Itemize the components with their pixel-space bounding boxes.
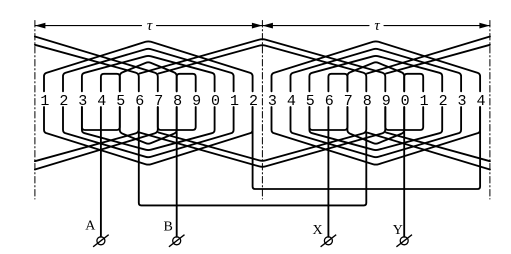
svg-text:4: 4 (476, 93, 485, 110)
coil wrap bottom end-connection outer-right (367, 133, 490, 170)
svg-text:8: 8 (363, 93, 372, 110)
svg-text:1: 1 (230, 93, 239, 110)
coil link slot8-slot9 top arch (177, 74, 196, 92)
svg-text:0: 0 (211, 93, 220, 110)
terminal X symbol (324, 237, 332, 245)
coil 3-10 bottom end-connection (82, 107, 215, 150)
arrowhead left (points left) (35, 23, 46, 29)
svg-text:3: 3 (78, 93, 87, 110)
coil 1-12 bottom end-connection (44, 107, 253, 165)
coil 3-10 top end-connection (82, 56, 215, 91)
wire terminal lead A (100, 107, 102, 237)
arrowhead mid-left (points right) (252, 23, 263, 29)
svg-text:8: 8 (173, 93, 182, 110)
svg-text:A: A (85, 219, 96, 234)
coil 1-12 top end-connection (44, 41, 253, 91)
wire tau dimension line left-b (157, 25, 263, 27)
coil 6-19 top end-connection (centre axis outer) (140, 39, 386, 91)
svg-text:1: 1 (40, 93, 49, 110)
coil 17-20 bottom end-connection (347, 107, 404, 144)
wire link slot3-slot5 (82, 107, 120, 130)
coil 15-22 top end-connection (309, 56, 442, 91)
wire link slot7-slot9 (158, 107, 196, 130)
coil 5-8 bottom end-connection (120, 107, 177, 144)
coil link slot4-slot5 top arch (101, 74, 120, 92)
terminal A symbol (97, 237, 105, 245)
svg-text:X: X (313, 223, 323, 238)
coil wrap top end-connection outer-right (367, 37, 490, 74)
coil wrap bottom end-connection inner-right (386, 133, 490, 162)
wire jumper slot12 to slot24 (253, 107, 481, 189)
wire tau dimension line right-b (384, 25, 490, 27)
coil 17-20 top end-connection (347, 62, 404, 91)
coil link slot20-slot21 top arch (404, 74, 423, 92)
svg-text:1: 1 (420, 93, 429, 110)
svg-text:5: 5 (306, 93, 315, 110)
svg-text:9: 9 (382, 93, 391, 110)
svg-text:2: 2 (439, 93, 448, 110)
wire jumper slot6 to slot18 (139, 107, 366, 205)
svg-text:6: 6 (325, 93, 334, 110)
terminal Y symbol (400, 237, 408, 245)
svg-text:0: 0 (401, 93, 410, 110)
svg-text:B: B (164, 219, 173, 234)
wire terminal lead B (176, 107, 178, 237)
svg-text:2: 2 (59, 93, 68, 110)
wire left pole axis (dash-dot) (34, 21, 36, 200)
wire tau dimension line right-a (262, 25, 369, 27)
wire terminal lead X (327, 107, 329, 237)
coil 13-24 bottom end-connection (272, 107, 481, 165)
svg-text:Y: Y (393, 223, 403, 238)
svg-text:6: 6 (135, 93, 144, 110)
coil 7-18 bottom end-connection (centre axis inner) (159, 107, 367, 161)
arrowhead mid-right (points left) (262, 23, 273, 29)
coil link slot16-slot17 top arch (328, 74, 347, 92)
coil 14-23 top end-connection (291, 49, 462, 92)
wire tau dimension line left-a (35, 25, 142, 27)
coil 7-18 top end-connection (centre axis inner) (159, 45, 367, 91)
wire terminal lead Y (403, 107, 405, 237)
terminal B symbol (173, 237, 181, 245)
coil 2-11 bottom end-connection (63, 107, 234, 157)
coil 15-22 bottom end-connection (309, 107, 442, 150)
coil 2-11 top end-connection (63, 49, 234, 92)
coil wrap bottom end-connection inner-left (35, 107, 139, 161)
wire link slot19-slot21 (385, 107, 423, 130)
svg-text:τ: τ (374, 18, 380, 34)
coil 5-8 top end-connection (120, 62, 177, 91)
svg-text:3: 3 (457, 93, 466, 110)
svg-text:4: 4 (287, 93, 296, 110)
coil 14-23 bottom end-connection (291, 107, 462, 157)
svg-text:5: 5 (116, 93, 125, 110)
svg-text:3: 3 (268, 93, 277, 110)
svg-text:τ: τ (147, 18, 153, 34)
arrowhead right (points right) (479, 23, 490, 29)
coil wrap bottom end-connection outer-left (35, 107, 158, 170)
coil wrap top end-connection inner-right (386, 45, 490, 74)
coil 13-24 top end-connection (272, 41, 481, 91)
svg-text:4: 4 (97, 93, 106, 110)
svg-text:7: 7 (154, 93, 163, 110)
svg-text:7: 7 (344, 93, 353, 110)
wire link slot15-slot17 (309, 107, 347, 130)
svg-text:9: 9 (192, 93, 201, 110)
svg-text:2: 2 (249, 93, 258, 110)
coil wrap top end-connection outer-left (35, 37, 158, 92)
coil 6-19 bottom end-connection (centre axis outer) (140, 107, 386, 167)
wire right pole axis (dash-dot) (489, 21, 491, 200)
coil wrap top end-connection inner-left (35, 45, 139, 92)
wire centre pole axis (dash-dot) (261, 21, 263, 200)
